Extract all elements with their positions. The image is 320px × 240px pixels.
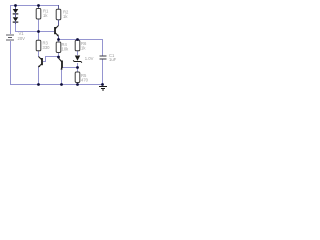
node dot output rail / Q3 emitter [57,38,60,41]
wire R3 bottom to Q1 collector [38,50,40,57]
ground [99,87,107,91]
wire C1 bottom to ground corner [102,59,104,85]
node B [57,56,60,59]
wire R4 leads [58,39,60,57]
resistor R4 [56,42,69,53]
wire R1 bottom to node A [38,19,40,32]
capacitor C1 [100,53,117,62]
resistor R2 [56,5,69,20]
transistor Q3 (pass) [55,20,59,40]
node C zener [76,66,79,69]
wire left edge upper (battery top) [10,5,12,34]
node dot ground corner [101,83,104,86]
node dot bottom rail / R5 [76,83,79,86]
wire Q1 base to node B [43,57,58,62]
zener diode D3 [73,56,93,63]
wire bottom rail [10,84,103,86]
wire zener to node C [77,63,79,68]
wire node C to R5 top [77,67,79,72]
battery V1 [6,31,25,41]
wire diode chain to node A [15,23,38,32]
svg-text:10k: 10k [62,46,70,51]
svg-text:1uF: 1uF [109,57,117,62]
wire node A to Q3 base [38,31,54,33]
diode D1 [13,5,19,17]
svg-text:20V: 20V [18,36,26,41]
svg-text:1.0V: 1.0V [85,56,94,61]
node dot output rail / R6 [76,38,79,41]
wire R6 bottom to zener [77,50,79,55]
node dot top rail / diodes [14,4,17,7]
diode D2 [13,17,19,24]
node A [37,30,40,33]
resistor R6 [75,40,87,51]
node dot bottom rail / Q2 [60,83,63,86]
node dot bottom rail / Q1 [37,83,40,86]
svg-text:1k: 1k [63,14,68,19]
svg-text:1k: 1k [81,45,86,50]
wire node A to R3 top [38,31,40,41]
wire Q2 emitter to bottom rail [61,69,63,84]
svg-text:1k: 1k [43,13,48,18]
resistor R5 [75,72,88,83]
svg-text:470: 470 [81,77,89,82]
wire top rail [10,5,58,7]
wire R6 top lead [77,39,79,41]
svg-text:330: 330 [43,45,51,50]
transistor Q1 (error-amp driver, mirrored) [38,57,42,68]
resistor R3 [36,40,50,51]
resistor R1 [36,5,49,19]
wire Q2 base to zener node [63,67,77,69]
wire Q1 emitter to bottom rail [38,66,40,84]
transistor Q2 [59,58,63,70]
wire left edge lower (battery bottom) [10,41,12,84]
node dot top rail / R1 [37,4,40,7]
wire R5 bottom lead [77,82,79,84]
wire output rail [58,39,103,56]
